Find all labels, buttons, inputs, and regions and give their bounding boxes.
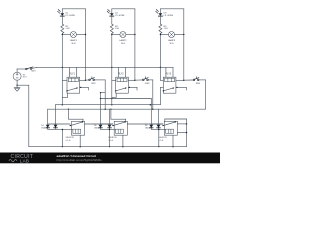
relay RLY6: [162, 121, 177, 135]
switch SW3: [143, 77, 149, 81]
svg-text:LTL-307EE: LTL-307EE: [66, 15, 76, 17]
wire column 3 below feed to pin: [159, 67, 161, 80]
wire to switch SW4: [184, 79, 193, 81]
svg-text:LAMP2: LAMP2: [119, 39, 127, 42]
wire RLY1 coil pin right: [76, 67, 78, 77]
wire right vertical column 2: [134, 9, 136, 80]
junction bus A column 2: [111, 104, 113, 106]
wire bus B: [48, 108, 206, 110]
diode D5: [54, 105, 58, 130]
wire diode pair 2 anode wire: [101, 123, 113, 125]
wire SW2 drop: [104, 80, 106, 109]
junction column 3 feed: [160, 67, 162, 69]
wire SW2 stub to diode column: [101, 92, 106, 94]
svg-text:1N4148: 1N4148: [94, 128, 100, 130]
svg-text:0.1 uF: 0.1 uF: [159, 140, 164, 142]
lamp LAMP2: [112, 32, 135, 38]
wire RLY2 left pin: [112, 79, 116, 81]
lamp LAMP1: [62, 32, 85, 38]
wire coil return to rail: [158, 129, 160, 146]
wire top rail column 3: [160, 8, 183, 10]
junction H1 left: [100, 98, 102, 100]
LED D3: [155, 9, 162, 24]
lamp LAMP3: [160, 32, 183, 38]
footer bar: [0, 153, 220, 164]
wire RLY6 to rail: [172, 135, 174, 146]
junction right drop bottom stub: [186, 132, 188, 134]
svg-text:36 Ω: 36 Ω: [169, 43, 174, 45]
junction bus B L-route column 2: [110, 109, 111, 110]
LED D2: [107, 9, 114, 24]
relay RLY2: [115, 77, 128, 93]
wire diode pair 2 cathode wire: [101, 128, 116, 130]
wire RLY3 coil pin left: [165, 67, 167, 77]
junction column 3 right pin: [183, 80, 185, 82]
svg-text:1 kΩ: 1 kΩ: [66, 28, 71, 30]
junction coil return rail: [158, 146, 159, 147]
wire bus C column 3: [165, 118, 187, 120]
junction coil return top: [62, 129, 63, 130]
relay RLY4: [70, 121, 85, 135]
junction SW2 stub: [100, 92, 101, 93]
diode D6: [99, 93, 103, 130]
wire RLY2 right pin: [128, 79, 135, 81]
wire RLY3 NC stub: [176, 87, 186, 90]
svg-text:LAMP1: LAMP1: [70, 39, 78, 42]
svg-text:RLY2: RLY2: [118, 74, 124, 76]
wire SW3 output: [148, 79, 152, 81]
diode D7: [108, 109, 112, 129]
junction coil return rail: [109, 146, 110, 147]
wire to switch SW2: [86, 79, 89, 81]
junction column 3 lamp right: [183, 34, 184, 35]
junction bus A pair3L: [150, 104, 152, 106]
wire RLY2 coil pin right: [124, 67, 126, 77]
junction column 2 lamp right: [134, 34, 135, 35]
wire RLY1 right pin: [80, 79, 86, 81]
wire V1 up: [16, 69, 18, 72]
switch SW2: [89, 77, 95, 81]
wire right drop: [186, 119, 188, 147]
wire RLY3 coil pin right: [172, 67, 174, 77]
wire RLY1 armature route left: [62, 96, 67, 98]
wire return down to rail: [28, 85, 30, 146]
junction column 2 feed: [111, 67, 113, 69]
junction column 1 lamp left: [62, 34, 63, 35]
wire RLY2 armature pin down: [115, 93, 117, 97]
relay RLY3: [163, 77, 176, 93]
wire SW4 output: [199, 79, 205, 81]
junction column 3 lamp left: [160, 34, 161, 35]
wire right vertical column 1: [85, 9, 87, 80]
wire diode pair 1 anode wire: [48, 123, 70, 125]
switch SW4: [193, 77, 199, 81]
diode D8: [149, 99, 153, 130]
wire right vertical column 3: [183, 9, 185, 80]
wire RLY1 coil pin left: [69, 67, 71, 77]
wire to switch SW3: [135, 79, 143, 81]
wire bottom box 3 stub up: [164, 119, 166, 121]
junction SW3 drop on bus B: [152, 108, 154, 110]
wire RLY6 right pin: [177, 123, 186, 125]
svg-text:1 kΩ: 1 kΩ: [115, 28, 120, 30]
wire column 1 mid vertical: [61, 34, 63, 68]
junction column 2 right pin: [134, 80, 136, 82]
wire V1 to SW1: [17, 68, 26, 70]
diode D4: [46, 109, 50, 129]
switch SW1: [26, 67, 33, 70]
wire coil return to rail: [109, 129, 111, 146]
wire SW2 output: [95, 79, 106, 81]
wire RLY5 to rail: [122, 135, 124, 146]
wire RLY2 armature route left: [112, 96, 116, 98]
ground: [14, 88, 20, 92]
junction right drop box3 pin: [186, 123, 188, 125]
svg-text:1 kΩ: 1 kΩ: [164, 28, 169, 30]
wire column 1 vertical to bus A: [61, 67, 63, 104]
wire SW1 out jog: [32, 67, 37, 68]
wire bottom box 1 feed L-route: [68, 109, 70, 119]
wire return right: [17, 84, 29, 86]
svg-text:LAMP3: LAMP3: [168, 39, 176, 42]
wire RLY3 left pin: [160, 79, 163, 81]
junction coil return top: [109, 129, 110, 130]
junction rail RLY5: [122, 146, 124, 148]
junction column 2 crosses feed line H1: [111, 98, 113, 100]
wire diode pair 1 cathode wire: [48, 128, 73, 130]
voltage source V1: [13, 72, 21, 80]
svg-text:LTL-307EE: LTL-307EE: [115, 15, 125, 17]
wire coil return to rail: [61, 129, 63, 146]
junction column 1 lamp right: [85, 34, 86, 35]
wire ground rail: [29, 146, 187, 148]
junction rail RLY4: [79, 146, 81, 148]
wire bottom row box2 to box3: [127, 123, 163, 125]
junction V1 ground return: [16, 85, 17, 86]
junction column 1 feed: [62, 67, 64, 69]
svg-text:36 Ω: 36 Ω: [121, 43, 126, 45]
junction coil return rail: [62, 146, 63, 147]
wire diode pair 3 cathode wire: [151, 128, 165, 130]
wire RLY2 coil pin left: [117, 67, 119, 77]
relay RLY5: [112, 121, 127, 135]
wire V1 to ground: [16, 80, 18, 87]
wire RLY3 armature drop: [159, 88, 161, 105]
wire RLY4 to rail: [79, 135, 81, 146]
wire column 2 mid vertical: [111, 34, 113, 68]
resistor R2: [110, 24, 113, 34]
wire feed line: [37, 66, 173, 68]
wire RLY3 armature pin: [160, 87, 163, 89]
relay RLY1: [67, 77, 80, 93]
junction coil return top: [158, 129, 159, 130]
resistor R3: [159, 24, 162, 34]
svg-text:LTL-307EE: LTL-307EE: [164, 15, 174, 17]
svg-text:36 Ω: 36 Ω: [71, 43, 76, 45]
svg-text:RLY1: RLY1: [69, 74, 75, 76]
diode D9: [157, 109, 161, 129]
wire bus A: [56, 104, 161, 106]
wire column 2 vertical to bus A: [111, 67, 113, 104]
junction column 2 lamp left: [111, 34, 112, 35]
junction column 1 right pin: [85, 80, 87, 82]
svg-text:RLY3: RLY3: [166, 74, 172, 76]
junction bus B L-route column 1: [68, 109, 69, 110]
wire RLY6 bottom stub: [177, 132, 186, 134]
svg-text:1N4148: 1N4148: [145, 128, 151, 130]
svg-text:LAB: LAB: [20, 158, 29, 163]
junction SW2 drop on bus B: [104, 108, 106, 110]
LED D1: [57, 9, 64, 24]
resistor R1: [61, 24, 64, 34]
svg-text:http://circuitlab.com/c/5gf21k: http://circuitlab.com/c/5gf21k5kM6u: [57, 158, 103, 162]
wire RLY1 armature pin down: [67, 93, 69, 97]
wire top rail column 2: [112, 8, 135, 10]
svg-text:0.1 uF: 0.1 uF: [108, 140, 113, 142]
junction rail RLY6: [172, 146, 174, 148]
wire RLY3 right pin: [176, 79, 184, 81]
wire H1 pair2L to pair3L: [101, 98, 152, 100]
junction bus A column 1: [62, 104, 64, 106]
wire diode pair 3 anode wire: [151, 123, 163, 125]
wire SW4 drop: [205, 80, 207, 109]
svg-text:0.1 uF: 0.1 uF: [66, 140, 71, 142]
wire bottom row box1 to box2: [85, 123, 113, 125]
wire column 3 mid vertical: [159, 34, 161, 68]
wire RLY2 NC stub: [128, 87, 137, 90]
svg-text:1N4148: 1N4148: [41, 128, 47, 130]
wire top rail column 1: [62, 8, 85, 10]
wire RLY1 left pin: [62, 79, 67, 81]
wire bottom box 2 feed L-route: [110, 109, 112, 119]
wire SW3 drop: [152, 80, 154, 109]
wire RLY1 NC stub: [80, 87, 89, 90]
